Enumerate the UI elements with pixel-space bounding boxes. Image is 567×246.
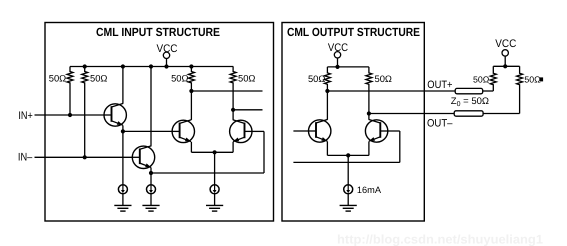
wire far VCC drop: [504, 56, 506, 66]
wire VCC to rail: [166, 59, 168, 67]
wire Q2 emitter down: [150, 168, 152, 173]
ground below I2: [142, 193, 159, 211]
wire diff pair emitter rail: [191, 151, 233, 153]
VCC terminal (input box): [163, 52, 169, 58]
transistor Q3 (diff pair left): [172, 120, 194, 143]
svg-text:50Ω: 50Ω: [308, 73, 325, 84]
wire Q6 collector to OUT-: [368, 114, 370, 120]
label R4 50ohm: [238, 72, 255, 83]
label R8 50ohm: [524, 74, 541, 84]
wire IN+ to Q1 base: [35, 114, 105, 116]
label R2 50ohm: [90, 72, 107, 83]
ground below I3: [206, 193, 223, 211]
resistor R3 50ohm (Q3 load): [188, 67, 194, 92]
title CML OUTPUT STRUCTURE: [287, 25, 420, 39]
wire Q2 emitter across to Q4 base riser: [151, 172, 264, 174]
node dot rail-Q2 collector: [149, 64, 153, 68]
node dot IN+/R1: [68, 113, 72, 117]
wire Q3 emitter down: [190, 142, 192, 153]
wire output emitter rail: [327, 154, 369, 156]
svg-text:IN–: IN–: [18, 152, 33, 164]
label OUT+: [427, 79, 452, 91]
resistor R1 50ohm (IN+ termination): [67, 67, 73, 116]
transistor Q5 (output left): [309, 119, 331, 142]
svg-text:50Ω: 50Ω: [49, 72, 66, 83]
wire Q3 collector up: [190, 91, 192, 120]
wire Q1 emitter down: [122, 125, 124, 131]
svg-text:50Ω: 50Ω: [238, 72, 255, 83]
svg-text:CML INPUT STRUCTURE: CML INPUT STRUCTURE: [96, 25, 220, 39]
wire VCC to rail (output box): [337, 58, 339, 67]
VCC label (output box): [328, 42, 348, 54]
current source I1: [118, 185, 127, 194]
ground below I1: [114, 193, 131, 211]
transmission line Z0 (OUT-): [454, 111, 483, 116]
transmission line Z0 (OUT+): [455, 88, 483, 93]
label IN+: [18, 110, 32, 122]
label R7 50ohm: [473, 75, 490, 85]
transistor Q4 (diff pair right): [230, 120, 252, 143]
resistor R2 50ohm (IN- termination): [82, 67, 88, 158]
wire Q5 base stub: [293, 130, 308, 132]
wire OUT- to R8 corner: [483, 113, 519, 115]
resistor R7 50ohm (far termination +): [490, 66, 496, 91]
svg-text:http://blog.csdn.net/shuyuelia: http://blog.csdn.net/shuyueliang1: [337, 233, 543, 246]
resistor R6 50ohm (OUT- load): [366, 67, 372, 114]
wire tail to current source I3: [214, 152, 216, 185]
label OUT-: [427, 118, 453, 130]
watermark text: [337, 233, 543, 246]
box: CML input structure frame: [45, 23, 274, 222]
node dot Q3 collector/R3: [189, 89, 193, 93]
wire Q1 emitter to current source I1: [122, 131, 124, 184]
label IN-: [18, 152, 33, 164]
box: CML output structure frame: [282, 23, 424, 222]
label R1 50ohm: [49, 72, 66, 83]
node dot rail-R3: [189, 64, 193, 68]
resistor R5 50ohm (OUT+ load): [324, 67, 330, 91]
transistor Q6 (output right): [365, 119, 387, 142]
wire OUT+ to R7: [483, 90, 494, 92]
label VCC (far right): [495, 38, 516, 50]
wire output stub (Q3 collector): [191, 90, 262, 92]
svg-text:IN+: IN+: [18, 110, 32, 122]
svg-text:VCC: VCC: [495, 38, 516, 50]
stray mark after R8 label: [540, 77, 543, 81]
wire Q6 base riser: [399, 131, 401, 162]
svg-text:50Ω: 50Ω: [90, 72, 107, 83]
label R6 50ohm: [375, 73, 392, 84]
node dot far VCC rail: [503, 64, 507, 68]
wire Q6 base lead: [388, 130, 400, 132]
wire Q5 emitter down: [326, 141, 328, 155]
VCC label (input box): [157, 43, 178, 55]
resistor R8 50ohm (far termination -): [517, 66, 523, 113]
svg-text:50Ω: 50Ω: [375, 73, 392, 84]
wire IN- to Q2 base: [35, 156, 133, 158]
node dot OUT+ (R5/Q5 collector): [325, 89, 329, 93]
svg-text:Z0 = 50Ω: Z0 = 50Ω: [451, 96, 489, 108]
label Z0 = 50ohm: [451, 96, 489, 108]
wire Q6 base stub across: [293, 161, 399, 163]
label 16mA: [357, 185, 382, 195]
node dot Q2 emitter: [149, 171, 153, 175]
svg-text:50Ω: 50Ω: [524, 74, 541, 84]
wire OUT- line: [369, 113, 455, 115]
node dot Q4 collector/R4: [231, 108, 235, 112]
node dot Q1 emitter: [121, 129, 125, 133]
wire tail to 16mA source: [347, 155, 349, 184]
node dot rail-Q1 collector: [121, 64, 125, 68]
title CML INPUT STRUCTURE: [96, 25, 220, 39]
wire riser to Q4 base: [252, 130, 264, 132]
node dot VCC rail (output box): [335, 65, 339, 69]
node dot emitter rail tail: [213, 150, 217, 154]
transistor Q1 (IN+ emitter follower): [104, 103, 126, 126]
node dot output tail: [346, 153, 350, 157]
svg-text:CML OUTPUT STRUCTURE: CML OUTPUT STRUCTURE: [287, 25, 420, 39]
wire output stub (Q4 collector): [233, 109, 262, 111]
svg-text:50Ω: 50Ω: [473, 75, 490, 85]
wire Q6 emitter down: [368, 141, 370, 155]
transistor Q2 (IN- emitter follower): [132, 146, 154, 169]
resistor R4 50ohm (Q4 load): [230, 67, 236, 110]
VCC terminal (output box): [334, 52, 340, 58]
svg-text:OUT+: OUT+: [427, 79, 452, 91]
current source I3: [210, 185, 219, 194]
wire Q4 base riser: [263, 131, 265, 173]
wire Q1 emitter to Q3 base: [123, 130, 172, 132]
label R3 50ohm: [171, 72, 188, 83]
svg-text:OUT–: OUT–: [427, 118, 453, 130]
wire Q2 collector to rail: [150, 67, 152, 146]
wire OUT+ line: [327, 90, 455, 92]
wire Q5 collector to OUT+: [326, 91, 328, 120]
wire VCC rail (output box): [327, 66, 369, 68]
wire top VCC rail: [70, 66, 233, 68]
svg-text:16mA: 16mA: [357, 185, 382, 195]
current source I2: [147, 185, 156, 194]
wire Q4 emitter down: [232, 142, 234, 153]
svg-text:50Ω: 50Ω: [171, 72, 188, 83]
node dot rail-VCC: [164, 64, 168, 68]
wire far VCC rail: [493, 65, 519, 67]
current source 16mA: [344, 185, 353, 194]
VCC terminal (far right): [502, 50, 508, 56]
ground below 16mA source: [340, 193, 357, 211]
node dot rail-R2: [83, 64, 87, 68]
node dot OUT- (R6/Q6 collector): [367, 111, 371, 115]
wire Q1 collector to rail: [122, 67, 124, 104]
label R5 50ohm: [308, 73, 325, 84]
wire Q4 collector up: [232, 110, 234, 120]
wire Q2 emitter to current source I2: [150, 173, 152, 185]
node dot IN-/R2: [83, 155, 87, 159]
